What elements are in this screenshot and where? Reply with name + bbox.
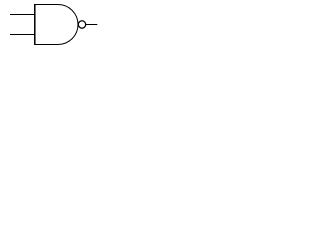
wire input A (10, 14, 36, 16)
wire input B (10, 34, 36, 36)
wire output (86, 24, 97, 26)
inverter bubble (78, 21, 85, 28)
NAND gate U1 left edge (34, 4, 36, 45)
NAND gate U1 body (35, 5, 78, 45)
